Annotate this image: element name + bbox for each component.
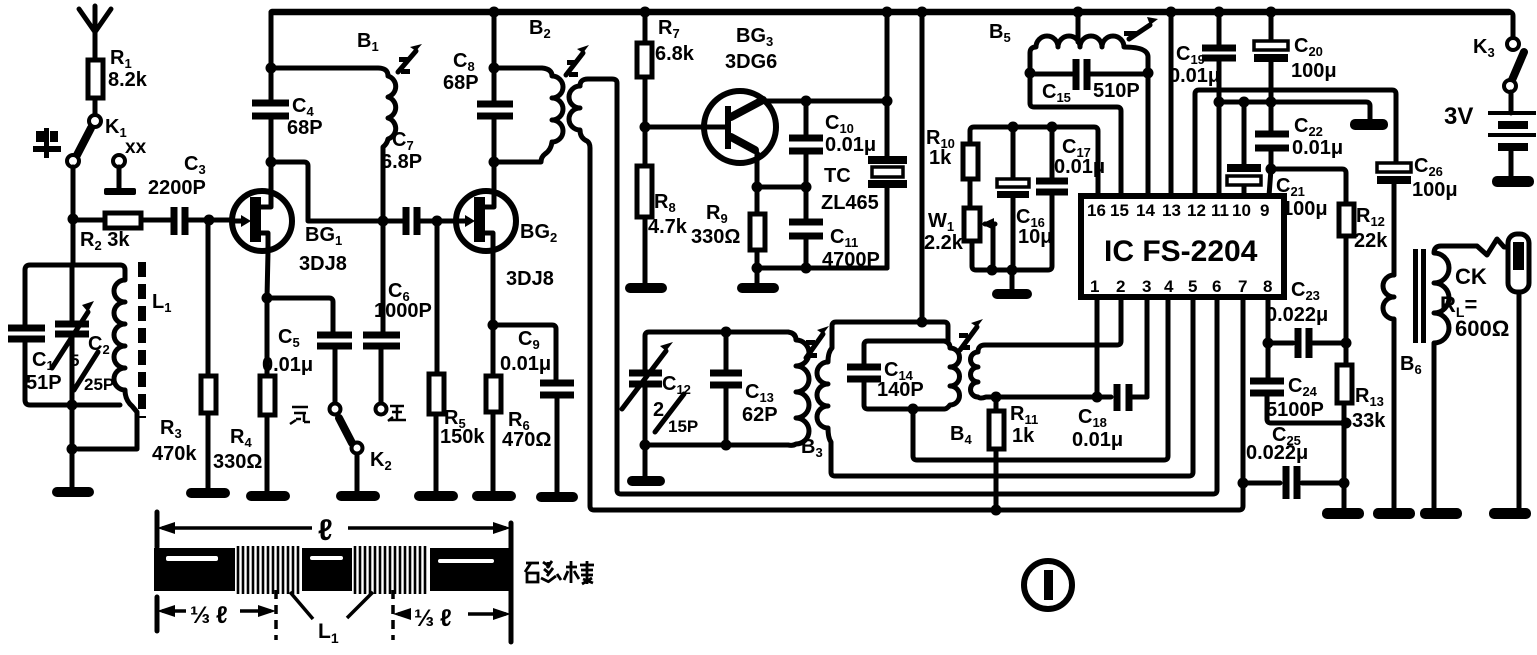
capacitor C25 xyxy=(1243,424,1344,499)
svg-text:100μ: 100μ xyxy=(1291,60,1337,82)
wire tank to ground xyxy=(70,405,75,488)
switch contact far xyxy=(330,404,341,415)
svg-text:11: 11 xyxy=(1211,201,1229,220)
svg-text:150k: 150k xyxy=(440,426,485,448)
wire R10 top rail to IC pin 16 xyxy=(970,127,1098,196)
inductor L1 xyxy=(78,265,171,449)
node R2/K1 junction xyxy=(68,214,79,225)
node pin7/C25 xyxy=(1238,478,1249,489)
ground under C9 xyxy=(536,492,578,502)
capacitor C20 electrolytic xyxy=(1254,12,1337,134)
svg-text:0.01μ: 0.01μ xyxy=(825,134,876,156)
resistor R7 xyxy=(637,12,695,127)
node bus x887 xyxy=(882,7,893,18)
inductor B4 primary xyxy=(944,341,960,409)
svg-text:R2 3k: R2 3k xyxy=(80,229,130,253)
resistor R1 xyxy=(88,47,148,115)
capacitor C10 xyxy=(789,101,876,187)
svg-text:0.01μ: 0.01μ xyxy=(500,353,551,375)
svg-text:3DG6: 3DG6 xyxy=(725,51,777,73)
resistor R9 xyxy=(691,202,765,284)
svg-text:62P: 62P xyxy=(742,404,778,426)
node bus x922 xyxy=(917,7,928,18)
capacitor C4 xyxy=(252,95,323,139)
node gate BG2 xyxy=(432,216,443,227)
capacitor C16 electrolytic xyxy=(997,127,1052,270)
resistor R13 xyxy=(1337,343,1386,509)
svg-text:140P: 140P xyxy=(877,379,924,401)
node drain BG1 xyxy=(266,157,277,168)
svg-text:6.8P: 6.8P xyxy=(381,151,422,173)
svg-text:3DJ8: 3DJ8 xyxy=(299,253,347,275)
svg-text:5: 5 xyxy=(70,351,79,370)
capacitor C8 xyxy=(443,50,513,116)
node R11 bottom bus xyxy=(991,505,1002,516)
potentiometer W1 xyxy=(924,208,995,270)
inductor B2 primary xyxy=(494,17,563,162)
node C16 bottom xyxy=(1007,265,1018,276)
tank circuit loop xyxy=(25,265,120,405)
svg-text:0.01μ: 0.01μ xyxy=(1072,429,1123,451)
node C17 top xyxy=(1047,122,1058,133)
ground under R3 xyxy=(186,488,230,498)
node source BG1 xyxy=(262,293,273,304)
wire emitter rail to C10 xyxy=(757,185,806,190)
wire collector BG3 xyxy=(762,99,887,104)
capacitor C3 xyxy=(148,153,206,235)
svg-text:25P: 25P xyxy=(84,375,114,394)
ground under R13 xyxy=(1322,508,1364,519)
wire gate to BG1 xyxy=(209,218,251,223)
ground under R4 xyxy=(246,491,290,501)
svg-text:1k: 1k xyxy=(929,147,952,169)
node C10 top xyxy=(801,96,812,107)
capacitor C24 xyxy=(1250,343,1346,423)
capacitor C7 xyxy=(381,129,474,235)
capacitor C26 electrolytic xyxy=(1377,155,1458,275)
B5 adjustable arrow xyxy=(1124,17,1158,39)
transistor BG2 (FET 3DJ8) xyxy=(456,190,557,290)
ground under R8 xyxy=(625,283,667,293)
ground under K2 xyxy=(336,491,380,501)
svg-text:8.2k: 8.2k xyxy=(108,69,148,91)
svg-text:14: 14 xyxy=(1136,201,1155,220)
wire bottom rail of BG3 stage xyxy=(757,266,887,271)
capacitor C23 xyxy=(1266,279,1346,358)
wire to R12 xyxy=(1271,169,1346,204)
inductor B3 primary xyxy=(788,332,823,460)
svg-text:51P: 51P xyxy=(26,372,62,394)
B2 adjustable core arrow xyxy=(566,45,589,77)
B6 core xyxy=(1413,249,1418,343)
figure number mark xyxy=(1024,561,1072,609)
svg-text:2.2k: 2.2k xyxy=(924,232,964,254)
inductor B5 xyxy=(989,21,1148,73)
B4 adjustable core arrow xyxy=(959,319,983,350)
svg-text:68P: 68P xyxy=(443,72,479,94)
resistor R11 xyxy=(989,397,1038,510)
svg-text:0.01μ: 0.01μ xyxy=(262,354,313,376)
capacitor C14 xyxy=(847,359,924,401)
svg-text:470k: 470k xyxy=(152,443,197,465)
svg-text:1k: 1k xyxy=(1012,425,1035,447)
wire C15 right to IC pin 14 xyxy=(1146,73,1151,196)
node rail C20 xyxy=(1266,97,1277,108)
transistor BG3 (3DG6) xyxy=(704,25,777,163)
wire loop bottom to IC pin 4 xyxy=(913,297,1168,460)
svg-text:330Ω: 330Ω xyxy=(213,451,262,473)
wire IC pin1 down xyxy=(1095,297,1100,397)
svg-text:600Ω: 600Ω xyxy=(1455,316,1509,341)
dimension 1/3l left xyxy=(157,590,276,640)
svg-text:3DJ8: 3DJ8 xyxy=(506,268,554,290)
svg-text:100μ: 100μ xyxy=(1282,198,1328,220)
wire IC pin 12 to C26 xyxy=(1195,90,1396,196)
capacitor C22 xyxy=(1255,115,1343,196)
wire collector to bus xyxy=(885,12,890,101)
node R9 bottom rail xyxy=(752,263,763,274)
wire BG2 source down xyxy=(491,252,496,376)
variable capacitor C2 xyxy=(52,265,114,405)
node B2 bottom / drain BG2 xyxy=(489,157,500,168)
node BG1 output xyxy=(378,216,389,227)
node B3/B4 junction xyxy=(917,317,928,328)
node C23 right xyxy=(1341,338,1352,349)
node C24 bottom xyxy=(1341,418,1352,429)
wire gate line xyxy=(73,218,170,223)
svg-text:10: 10 xyxy=(1232,201,1251,220)
node source BG2 xyxy=(488,320,499,331)
svg-text:15P: 15P xyxy=(668,417,698,436)
svg-text:22k: 22k xyxy=(1354,230,1388,252)
antenna xyxy=(79,6,111,60)
capacitor C18 xyxy=(1072,384,1147,451)
svg-text:10μ: 10μ xyxy=(1018,226,1052,248)
node bus B5 tap xyxy=(1073,7,1084,18)
svg-text:IC FS-2204: IC FS-2204 xyxy=(1104,235,1258,268)
node bus R7 xyxy=(640,7,651,18)
capacitor C13 xyxy=(710,332,778,445)
svg-text:2200P: 2200P xyxy=(148,177,206,199)
svg-text:3V: 3V xyxy=(1444,103,1473,130)
node tank bottom xyxy=(67,400,78,411)
ground under B6 secondary xyxy=(1420,508,1462,519)
node bus BG2 column xyxy=(489,7,500,18)
ground under C12 xyxy=(627,476,665,486)
wire chassis rail xyxy=(1219,102,1370,119)
inductor B2 secondary with long loop to IC pins 6,7 xyxy=(569,79,1243,510)
ground under battery xyxy=(1492,176,1534,187)
ferrite core dashed xyxy=(138,262,146,418)
node C15 left xyxy=(1025,68,1036,79)
node bus C20 xyxy=(1266,7,1277,18)
node B4 loop bottom xyxy=(908,404,919,415)
battery 3V xyxy=(1444,92,1536,177)
wire B5 left to IC pin 15 xyxy=(1030,73,1121,196)
variable capacitor C12 xyxy=(622,342,698,436)
spare antenna terminal XX xyxy=(104,137,147,195)
ground under C16 rail xyxy=(992,289,1032,299)
wire base BG3 xyxy=(645,125,722,130)
capacitor C19 xyxy=(1169,12,1236,196)
label yuan (far) xyxy=(290,407,310,424)
node C18 left / pin1 xyxy=(1092,392,1103,403)
switch K1 xyxy=(67,115,127,167)
svg-text:6: 6 xyxy=(1212,277,1221,296)
capacitor C6 xyxy=(363,221,432,403)
resistor R8 xyxy=(637,127,688,284)
inductor B3 secondary xyxy=(817,297,1193,476)
inductor B4 secondary xyxy=(950,297,1121,447)
node pin8/C23 xyxy=(1263,338,1274,349)
node C11 top xyxy=(801,182,812,193)
wire bus to B3/B4 node xyxy=(920,12,925,322)
wire source to C5 xyxy=(267,298,333,335)
dimension l overall xyxy=(157,512,511,642)
node L1 tap xyxy=(67,444,78,455)
capacitor C11 xyxy=(789,187,880,271)
ceramic resonator TC ZL465 xyxy=(821,101,907,268)
capacitor C1 xyxy=(8,328,62,394)
ground under R5 xyxy=(414,491,458,501)
svg-text:3: 3 xyxy=(1142,277,1151,296)
wire bus to IC pin 13 xyxy=(1169,12,1174,196)
svg-text:8: 8 xyxy=(1263,277,1272,296)
node C13 bottom xyxy=(721,440,732,451)
svg-text:15: 15 xyxy=(1110,201,1129,220)
svg-text:⅓: ⅓ xyxy=(414,605,434,632)
svg-text:6.8k: 6.8k xyxy=(655,43,695,65)
switch K2 xyxy=(339,418,392,492)
resistor R4 xyxy=(213,376,275,492)
svg-text:ℓ: ℓ xyxy=(216,602,228,629)
L1 leader labels xyxy=(290,592,373,646)
B5 centre tap to bus xyxy=(1076,12,1081,42)
svg-text:1: 1 xyxy=(1090,277,1099,296)
C14/B4 primary loop xyxy=(864,341,944,409)
resistor R6 xyxy=(486,376,551,492)
node bus C19 xyxy=(1214,7,1225,18)
wire bus left drop / C4 column xyxy=(269,12,274,193)
svg-text:0.01μ: 0.01μ xyxy=(1292,137,1343,159)
label jin (near) xyxy=(388,406,406,421)
B3 adjustable core arrow xyxy=(806,326,829,358)
inductor B1 xyxy=(271,30,396,216)
wire K1 to gate node xyxy=(71,167,76,265)
svg-text:TC: TC xyxy=(824,165,851,187)
wire BG1 source down xyxy=(267,252,268,376)
svg-text:510P: 510P xyxy=(1093,80,1140,102)
wire drain jog to output xyxy=(271,162,379,221)
svg-text:ℓ: ℓ xyxy=(318,514,333,547)
svg-text:0.01μ: 0.01μ xyxy=(1054,156,1105,178)
capacitor C5 xyxy=(262,326,352,403)
svg-text:68P: 68P xyxy=(287,117,323,139)
resistor R12 xyxy=(1339,204,1388,342)
node C4 top / B1 xyxy=(266,63,277,74)
svg-text:100μ: 100μ xyxy=(1412,179,1458,201)
transistor BG1 (FET 3DJ8) xyxy=(232,190,347,275)
rod winding L1 sections xyxy=(235,546,430,594)
label magnetic rod (Chinese 磁棒) xyxy=(525,561,594,584)
switch contact near xyxy=(376,404,387,415)
svg-text:xx: xx xyxy=(125,137,147,158)
node C21 top xyxy=(1239,97,1250,108)
svg-text:9: 9 xyxy=(1260,201,1269,220)
ground under R6 xyxy=(472,491,516,501)
svg-text:16: 16 xyxy=(1087,201,1106,220)
svg-text:5: 5 xyxy=(1188,277,1197,296)
node chassis rail C19 xyxy=(1214,97,1225,108)
ground under earphone xyxy=(1489,508,1531,519)
svg-text:0.022μ: 0.022μ xyxy=(1246,442,1308,464)
svg-text:12: 12 xyxy=(1187,201,1206,220)
wire source to C9 xyxy=(493,325,556,383)
svg-text:ℓ: ℓ xyxy=(440,605,452,632)
ground under B6 primary xyxy=(1373,508,1415,519)
node C22 bottom / R12 xyxy=(1266,164,1277,175)
ground under R9 xyxy=(737,283,779,293)
svg-text:1000P: 1000P xyxy=(374,300,432,322)
node C16 top xyxy=(1008,122,1019,133)
wire emitter down xyxy=(755,153,760,214)
svg-text:CK: CK xyxy=(1455,264,1487,289)
resistor R5 xyxy=(429,221,485,492)
oscillator tank rails C12/C13 xyxy=(645,332,788,476)
node R11 top xyxy=(991,392,1002,403)
svg-text:2: 2 xyxy=(1116,277,1125,296)
B1 adjustable core arrow xyxy=(398,44,422,74)
wire bus to C8 xyxy=(492,12,497,193)
ferrite rod xyxy=(154,548,511,591)
svg-text:7: 7 xyxy=(1238,277,1247,296)
capacitor C9 xyxy=(500,328,574,492)
wire IC pin3 down xyxy=(1145,297,1150,397)
ground under tank xyxy=(52,487,94,497)
svg-text:4: 4 xyxy=(1164,277,1174,296)
svg-text:13: 13 xyxy=(1162,201,1181,220)
switch K3 xyxy=(1473,12,1524,92)
transformer B6 primary xyxy=(1383,275,1422,508)
svg-text:0.022μ: 0.022μ xyxy=(1266,304,1328,326)
wire W1 bottom rail xyxy=(972,192,1052,270)
node collector/TC xyxy=(882,96,893,107)
svg-text:2: 2 xyxy=(653,399,664,421)
wire IC pin8 down xyxy=(1266,297,1271,343)
node bus pin13 xyxy=(1166,7,1177,18)
jack symbol (Chinese glyph) xyxy=(33,128,61,158)
dimension 1/3l right xyxy=(393,590,511,640)
resistor R3 xyxy=(152,220,216,489)
svg-text:0.01μ: 0.01μ xyxy=(1169,65,1220,87)
wire C16 ground stub xyxy=(1010,270,1015,290)
node C15 right xyxy=(1143,68,1154,79)
node wiper xyxy=(987,265,998,276)
svg-text:33k: 33k xyxy=(1352,410,1386,432)
node C25 right xyxy=(1339,478,1350,489)
svg-text:4.7k: 4.7k xyxy=(648,216,688,238)
node B2 top xyxy=(489,63,500,74)
node base BG3 xyxy=(640,122,651,133)
transformer B6 secondary xyxy=(1434,239,1510,508)
svg-text:⅓: ⅓ xyxy=(190,602,210,629)
resistor R10 xyxy=(926,127,978,208)
svg-text:470Ω: 470Ω xyxy=(502,429,551,451)
node C13 top xyxy=(721,327,732,338)
node gate BG1 xyxy=(204,215,215,226)
node C12 bottom xyxy=(640,440,651,451)
earphone CK xyxy=(1440,234,1529,508)
svg-text:330Ω: 330Ω xyxy=(691,226,740,248)
op IC FS-2204 box xyxy=(1081,196,1284,297)
chassis tab xyxy=(1350,119,1388,130)
node emitter rail xyxy=(752,182,763,193)
resistor R2 xyxy=(80,213,141,253)
svg-text:5100P: 5100P xyxy=(1266,399,1324,421)
capacitor C15 xyxy=(1030,59,1148,105)
capacitor C17 xyxy=(1036,127,1105,192)
top supply bus xyxy=(272,9,1509,16)
svg-text:ZL465: ZL465 xyxy=(821,192,879,214)
node C11 bottom xyxy=(801,263,812,274)
capacitor C21 electrolytic xyxy=(1227,102,1328,220)
